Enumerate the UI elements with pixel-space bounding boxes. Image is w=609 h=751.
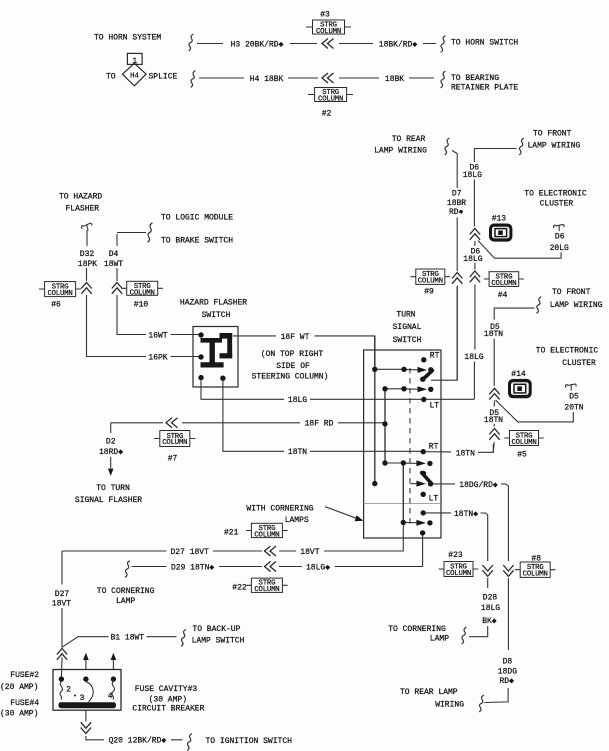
svg-text:#4: #4 (498, 291, 508, 300)
terminal end D5 20TN (566, 384, 577, 391)
svg-text:COLUMN: COLUMN (47, 290, 72, 298)
wire H4 18BK (199, 77, 318, 79)
label 4 (108, 692, 113, 701)
label 18LG (after connector) (306, 563, 330, 572)
contact dots row C (372, 386, 433, 486)
wire D32 18PK vertical (87, 230, 202, 357)
wire H3 20BK/RD (left segment) (197, 43, 317, 45)
contact row A arrow (418, 367, 428, 373)
wire D7 18BR RD vertical (452, 151, 457, 381)
svg-text:#14: #14 (511, 370, 526, 379)
svg-text:B1 18WT: B1 18WT (110, 634, 144, 643)
svg-text:LT: LT (429, 495, 439, 504)
connector chevrons D5 (upper) (489, 388, 499, 399)
fuse terminal dots (59, 676, 116, 681)
connector STRG COLUMN #9 (411, 269, 451, 297)
connector STRG COLUMN #21 (224, 523, 288, 539)
connector chevrons #23 (483, 565, 493, 576)
svg-text:18RD◆: 18RD◆ (99, 448, 123, 457)
wire 18BK to bearing retainer plate (339, 77, 434, 79)
connector break to back-up lamp switch (181, 629, 186, 646)
label D5 18TN (upper) (484, 323, 503, 339)
connector STRG COLUMN #8 (515, 554, 556, 578)
svg-text:20LG: 20LG (550, 244, 569, 253)
label D4 18WT (104, 250, 123, 269)
connector break to cornering lamp (right) (462, 627, 467, 644)
svg-text:LAMP WIRING: LAMP WIRING (528, 141, 581, 150)
svg-text:LAMP WIRING: LAMP WIRING (374, 146, 427, 155)
svg-text:(30 AMP): (30 AMP) (149, 696, 187, 705)
label D8 18DG RD (498, 658, 517, 687)
svg-text:D5: D5 (569, 392, 579, 401)
label D2 18RD (99, 438, 123, 457)
terminal end to hazard flasher (81, 223, 93, 232)
splice H4 diamond (122, 63, 146, 86)
svg-text:H4: H4 (130, 73, 139, 81)
svg-text:TO CORNERING: TO CORNERING (97, 587, 155, 596)
svg-text:#21: #21 (224, 529, 239, 538)
note (ON TOP RIGHT SIDE OF STEERING COLUMN) (252, 350, 329, 382)
svg-text:FUSE#4: FUSE#4 (10, 699, 39, 708)
circuit breaker arc (86, 682, 93, 702)
svg-text:D2: D2 (106, 438, 116, 447)
connector break to front lamp wiring (top) (519, 138, 524, 155)
label 18LG (on D6 near switch) (464, 353, 483, 362)
svg-text:FUSE#2: FUSE#2 (10, 671, 39, 680)
svg-text:RT: RT (430, 352, 440, 361)
label LT (lower) (429, 495, 439, 504)
svg-text:18TN: 18TN (288, 448, 307, 457)
label 18TN cornering (454, 510, 478, 519)
connector STRG COLUMN #7 (154, 431, 195, 464)
fuse element 4 squiggle (112, 682, 115, 700)
label H4 18BK (250, 75, 284, 84)
svg-text:RETAINER PLATE: RETAINER PLATE (451, 84, 518, 93)
label 16WT (148, 331, 167, 340)
svg-text:TO REAR LAMP: TO REAR LAMP (400, 688, 458, 697)
svg-text:3: 3 (80, 694, 85, 703)
connector STRG COLUMN #10 (121, 281, 163, 309)
label 18BK/RD (379, 40, 418, 49)
svg-text:18WT: 18WT (104, 260, 123, 269)
node: TO REAR LAMP WIRING label (374, 135, 427, 156)
label B1 18WT (110, 634, 144, 643)
svg-text:18TN: 18TN (484, 416, 503, 425)
label 18F WT (281, 333, 310, 342)
node: TO CORNERING LAMP label (left) (97, 587, 155, 606)
svg-text:#2: #2 (322, 110, 332, 119)
svg-text:18F WT: 18F WT (281, 333, 310, 342)
wire 18BK/RD to horn switch (339, 43, 436, 45)
label Q20 12BK/RD (109, 737, 167, 746)
svg-text:LAMP: LAMP (116, 597, 135, 606)
label TURN SIGNAL SWITCH (393, 311, 422, 345)
svg-text:18LG: 18LG (481, 604, 500, 613)
node: TO CORNERING LAMP label (right) (388, 625, 449, 644)
contact dots row A (372, 367, 433, 373)
connector chevrons #8 (503, 565, 513, 576)
node: TO IGNITION SWITCH label (206, 737, 293, 746)
connector STRG COLUMN #3 (306, 11, 351, 36)
svg-text:TO LOGIC MODULE: TO LOGIC MODULE (161, 214, 233, 223)
svg-text:18VT: 18VT (52, 600, 71, 609)
svg-text:TURN: TURN (396, 311, 415, 320)
svg-text:COLUMN: COLUMN (318, 95, 343, 103)
svg-text:TO FRONT: TO FRONT (552, 288, 591, 297)
connector break from splice (191, 71, 196, 88)
svg-text:TO IGNITION SWITCH: TO IGNITION SWITCH (206, 737, 293, 746)
wire D2 18RD vertical (110, 423, 112, 468)
svg-text:TO HORN SYSTEM: TO HORN SYSTEM (94, 34, 161, 43)
connector chevrons 18VT (265, 546, 277, 556)
label 18DG/RD (459, 481, 498, 490)
svg-text:LT: LT (430, 401, 440, 410)
wire arm output to D7 (431, 287, 457, 380)
svg-text:H4 18BK: H4 18BK (250, 75, 284, 84)
svg-text:4: 4 (108, 692, 113, 701)
svg-text:COLUMN: COLUMN (418, 278, 443, 286)
node: TO HORN SYSTEM label (94, 34, 161, 43)
faint internal line (364, 503, 441, 505)
label D6 20LG (550, 233, 569, 253)
terminal end D6 20LG (554, 225, 565, 232)
svg-text:COLUMN: COLUMN (491, 280, 516, 288)
svg-text:COLUMN: COLUMN (511, 439, 536, 447)
connector chevrons D6 (upper) (470, 229, 480, 240)
label 3 (74, 694, 85, 703)
contact row B arrow (418, 386, 428, 392)
connector break to rear lamp wiring (bottom) (479, 695, 484, 712)
svg-text:FUSE CAVITY#3: FUSE CAVITY#3 (135, 685, 198, 694)
svg-text:D8: D8 (503, 658, 513, 667)
connector break to front lamp wiring (mid) (536, 297, 541, 314)
wire tap to electronic cluster #14 (496, 400, 574, 422)
svg-text:Q20 12BK/RD◆: Q20 12BK/RD◆ (109, 737, 167, 746)
label D28 18LG BK (481, 594, 500, 626)
label 16PK (148, 353, 167, 362)
node: FUSE#2 (20 AMP) label (0, 671, 39, 692)
svg-text:#22: #22 (232, 583, 247, 592)
wire 18DG/RD to D8 (434, 484, 509, 561)
label D7 18BR RD (447, 190, 466, 218)
svg-text:CIRCUIT BREAKER: CIRCUIT BREAKER (132, 704, 204, 713)
svg-text:(ON TOP RIGHT: (ON TOP RIGHT (261, 350, 324, 359)
label D27 18VT (vertical) (52, 590, 71, 609)
connector chevrons on horn wire (322, 39, 334, 49)
label RT (upper) (430, 352, 440, 361)
svg-text:D29 18TN◆: D29 18TN◆ (171, 563, 214, 572)
node: TO BACK-UP LAMP SWITCH label (192, 625, 245, 646)
svg-text:18TN: 18TN (484, 330, 503, 339)
label RT (lower) (429, 443, 439, 452)
svg-text:16WT: 16WT (148, 331, 167, 340)
contact dot 18TN row (421, 449, 426, 454)
svg-text:18PK: 18PK (78, 260, 97, 269)
connector STRG COLUMN #2 (308, 88, 353, 119)
svg-text:TO TURN: TO TURN (96, 484, 130, 493)
svg-text:TO HAZARD: TO HAZARD (59, 193, 102, 202)
svg-text:D7: D7 (452, 190, 462, 199)
svg-text:18BK: 18BK (385, 75, 404, 84)
svg-text:LAMP WIRING: LAMP WIRING (550, 301, 603, 310)
node: TO TURN SIGNAL FLASHER label (75, 484, 142, 505)
svg-text:16PK: 16PK (148, 353, 167, 362)
svg-text:SIDE OF: SIDE OF (276, 362, 310, 371)
svg-text:RT: RT (429, 443, 439, 452)
svg-text:COLUMN: COLUMN (446, 570, 471, 578)
switch arm LT (thick bar) (421, 471, 432, 484)
node: TO FRONT LAMP WIRING label (mid) (550, 288, 603, 310)
svg-text:SWITCH: SWITCH (202, 311, 231, 320)
connector break to horn switch (441, 36, 446, 53)
svg-text:(20 AMP): (20 AMP) (0, 683, 38, 692)
svg-text:18LG: 18LG (463, 255, 482, 264)
label 18BK (385, 75, 404, 84)
svg-text:#5: #5 (517, 451, 527, 460)
svg-text:D27: D27 (55, 590, 70, 599)
wire center column (402, 463, 404, 522)
svg-text:18LG: 18LG (288, 396, 307, 405)
svg-text:#7: #7 (168, 455, 178, 464)
svg-text:18BK/RD◆: 18BK/RD◆ (379, 40, 418, 49)
svg-text:SWITCH: SWITCH (393, 336, 422, 345)
svg-text:TO: TO (106, 72, 116, 81)
node: TO HAZARD FLASHER label (59, 193, 102, 214)
svg-text:TO CORNERING: TO CORNERING (388, 625, 446, 634)
svg-text:D28: D28 (483, 594, 498, 603)
dashed divider line (409, 368, 411, 528)
connector STRG COLUMN #23 (439, 551, 479, 578)
svg-text:SIGNAL: SIGNAL (393, 323, 422, 332)
connector chevrons D5 (lower) (489, 429, 499, 440)
connector STRG COLUMN #5 (504, 431, 544, 460)
node: TO LOGIC MODULE label (161, 214, 233, 223)
wire 18VT from D27 to switch (62, 525, 403, 551)
hazard switch internal contact symbol (201, 333, 233, 366)
label 2 (66, 685, 71, 694)
wire 18LG from hazard switch to turn signal switch and D6 (201, 380, 474, 399)
svg-text:18VT: 18VT (300, 548, 319, 557)
svg-text:(30 AMP): (30 AMP) (0, 710, 38, 719)
connector chevrons D27 (57, 649, 67, 660)
svg-text:HAZARD FLASHER: HAZARD FLASHER (180, 298, 247, 307)
wire 18F WT from hazard switch (233, 336, 375, 367)
node: TO BEARING RETAINER PLATE label (451, 74, 518, 93)
svg-text:D4: D4 (109, 250, 119, 259)
svg-text:D6: D6 (555, 233, 565, 242)
svg-text:#13: #13 (492, 215, 507, 224)
node: TO BRAKE SWITCH label (161, 237, 233, 246)
svg-text:COLUMN: COLUMN (316, 28, 341, 36)
svg-text:TO BRAKE SWITCH: TO BRAKE SWITCH (161, 237, 233, 246)
connector break to ignition switch (187, 734, 192, 751)
wire 18F RD from D2 to turn signal switch (111, 422, 385, 424)
bottom row line and arrow (403, 520, 426, 526)
svg-text:18LG: 18LG (463, 171, 482, 180)
svg-text:TO REAR: TO REAR (392, 135, 426, 144)
svg-text:COLUMN: COLUMN (254, 586, 279, 594)
connector chevrons D32 (81, 283, 91, 294)
connector STRG COLUMN #4 (484, 272, 524, 300)
svg-text:TO ELECTRONIC: TO ELECTRONIC (524, 189, 587, 198)
fuse block bus bar (59, 702, 117, 708)
contact row C arrow (416, 460, 426, 466)
svg-text:COLUMN: COLUMN (130, 289, 155, 297)
label D6 18LG (upper) (463, 163, 482, 180)
svg-text:TO ELECTRONIC: TO ELECTRONIC (536, 347, 599, 356)
wire D6 18LG vertical (474, 149, 516, 400)
svg-text:SIGNAL FLASHER: SIGNAL FLASHER (75, 496, 142, 505)
contact row C lines (385, 462, 417, 464)
contact dot 18TN cornering out (421, 510, 426, 515)
svg-text:COLUMN: COLUMN (254, 531, 279, 539)
node: TO H4 SPLICE label (106, 72, 178, 81)
svg-text:18DG/RD◆: 18DG/RD◆ (459, 481, 498, 490)
connector chevrons D6 (lower) (470, 271, 480, 282)
svg-text:18LG◆: 18LG◆ (306, 563, 330, 572)
connector chevrons D7 (452, 273, 462, 284)
svg-text:LAMP SWITCH: LAMP SWITCH (192, 637, 245, 646)
contact dot 18DG/RD out (428, 481, 433, 486)
svg-text:BK◆: BK◆ (482, 617, 497, 626)
connector break to horn system (189, 34, 194, 51)
fuse block box (53, 670, 121, 711)
svg-text:H3 20BK/RD◆: H3 20BK/RD◆ (231, 40, 284, 49)
svg-text:18BR: 18BR (447, 199, 466, 208)
svg-text:TO BACK-UP: TO BACK-UP (192, 625, 240, 634)
wire 18TN from hazard switch to D5 (223, 381, 493, 453)
svg-text:WIRING: WIRING (435, 701, 464, 710)
wire 18TN cornering to D28 (426, 513, 488, 561)
svg-text:CLUSTER: CLUSTER (562, 359, 596, 368)
contact row A lines (375, 368, 418, 371)
svg-text:D32: D32 (80, 250, 95, 259)
connector chevrons D4 (112, 283, 122, 294)
wire D27 vertical to fuse block (60, 551, 63, 677)
wire D29 18TN to switch (132, 536, 423, 567)
svg-text:RD◆: RD◆ (499, 677, 514, 686)
LT contact dot on 18LG (421, 397, 426, 402)
svg-text:#3: #3 (320, 11, 330, 20)
node: TO FRONT LAMP WIRING label (top) (528, 129, 581, 150)
svg-text:#23: #23 (448, 551, 463, 560)
svg-text:STEERING COLUMN): STEERING COLUMN) (252, 372, 329, 381)
svg-text:20TN: 20TN (564, 403, 583, 412)
RT pivot dot (421, 357, 426, 362)
svg-text:WITH CORNERING: WITH CORNERING (246, 505, 313, 514)
svg-text:18F RD: 18F RD (305, 420, 334, 429)
label D32 18PK (78, 250, 97, 269)
splice cavity box 1 (127, 53, 142, 66)
label 18VT (right) (300, 548, 319, 557)
svg-text:D27 18VT: D27 18VT (170, 548, 209, 557)
connector chevrons Q20 (81, 722, 91, 733)
switch arm RT (thick bar) (420, 371, 432, 382)
contact dot LT lower pivot (421, 492, 426, 497)
svg-text:COLUMN: COLUMN (162, 439, 187, 447)
cluster icon #14 (508, 370, 532, 398)
wire D8 18DG RD vertical (484, 578, 508, 703)
svg-text:18DG: 18DG (498, 668, 517, 677)
svg-text:TO HORN SWITCH: TO HORN SWITCH (451, 39, 518, 48)
svg-text:COLUMN: COLUMN (523, 571, 548, 579)
wire rail from 18F WT (374, 336, 376, 484)
label 18F RD (305, 420, 334, 429)
svg-text:18TN◆: 18TN◆ (454, 510, 478, 519)
contact dots row B (401, 386, 433, 392)
hazard flasher switch S3 box (193, 327, 238, 388)
wire rail 2 (384, 389, 386, 463)
arrow to turn signal flasher (108, 469, 114, 477)
fuse element 2 squiggle (60, 682, 63, 700)
label D5 20TN (564, 392, 583, 412)
label FUSE CAVITY#3 (30 AMP) CIRCUIT BREAKER (132, 685, 204, 713)
label H3 20BK/RD (231, 40, 284, 49)
label D29 18TN (171, 563, 214, 572)
label D6 18LG (middle) (463, 247, 482, 264)
svg-text:#9: #9 (424, 288, 434, 297)
label D27 18VT (on wire) (170, 548, 209, 557)
turn signal switch box (364, 350, 441, 538)
bottom row dots (401, 520, 433, 536)
pin dots hazard switch (198, 332, 225, 381)
node: TO ELECTRONIC CLUSTER label (upper) (524, 189, 587, 208)
label 18TN (right) (456, 449, 475, 458)
svg-text:RD●: RD● (449, 208, 464, 217)
note WITH CORNERING LAMPS (246, 505, 313, 525)
wire B1 18WT branch (62, 637, 177, 648)
svg-text:CLUSTER: CLUSTER (540, 199, 574, 208)
label HAZARD FLASHER SWITCH (180, 298, 247, 320)
svg-text:TO BEARING: TO BEARING (451, 74, 499, 83)
wire D5 18TN vertical (493, 308, 534, 452)
connector chevrons on H4 wire (322, 73, 334, 83)
contact row B lines (385, 388, 418, 390)
connector chevrons D29 (265, 562, 277, 572)
svg-text:2: 2 (66, 685, 71, 694)
wire D4 18WT vertical (117, 233, 201, 335)
node: TO REAR LAMP WIRING label (bottom) (400, 688, 464, 710)
fuse terminal arrows (83, 653, 116, 670)
connector break to logic module / brake switch (148, 223, 153, 242)
arrow to switch (cornering lamps) (325, 507, 363, 522)
label 18TN (left) (288, 448, 307, 457)
svg-text:#10: #10 (134, 300, 149, 309)
label 18LG (288, 396, 307, 405)
cluster icon #13 (489, 215, 512, 242)
label D5 18TN (lower) (484, 409, 503, 425)
connector STRG COLUMN #22 (232, 578, 287, 594)
wire D28 18LG BK vertical (469, 578, 488, 637)
node: TO HORN SWITCH label (451, 39, 518, 48)
arm LT arrow (411, 481, 426, 487)
connector chevrons 18F RD (166, 418, 178, 428)
connector break to cornering lamp (left) (125, 561, 130, 578)
connector break to bearing retainer (441, 71, 446, 88)
label LT (upper) (430, 401, 440, 410)
svg-text:18LG: 18LG (464, 353, 483, 362)
svg-text:FLASHER: FLASHER (66, 205, 100, 214)
svg-text:LAMP: LAMP (430, 634, 449, 643)
svg-text:TO FRONT: TO FRONT (533, 129, 572, 138)
svg-text:LAMPS: LAMPS (285, 516, 309, 525)
svg-text:18TN: 18TN (456, 449, 475, 458)
node: TO ELECTRONIC CLUSTER label (lower) (536, 347, 599, 369)
wire tap to electronic cluster #13 (478, 241, 561, 259)
node: FUSE#4 (30 AMP) label (0, 699, 39, 718)
svg-text:#6: #6 (51, 300, 61, 309)
svg-text:SPLICE: SPLICE (149, 72, 178, 81)
